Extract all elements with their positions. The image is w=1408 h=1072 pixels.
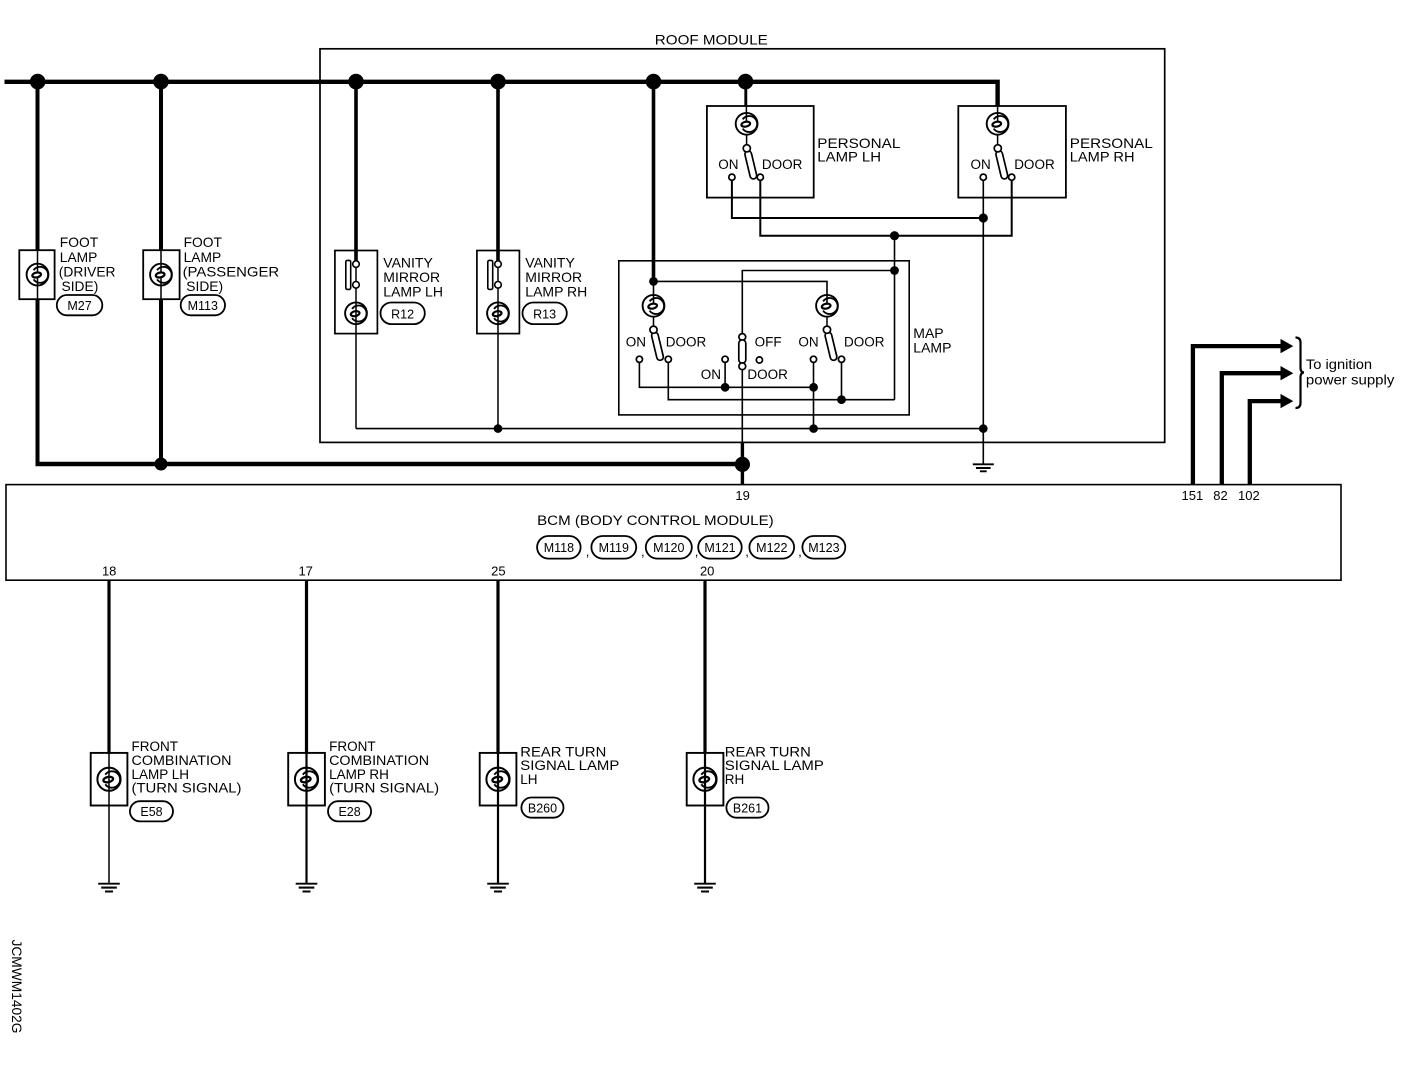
svg-text:DOOR: DOOR — [666, 334, 707, 349]
svg-text:REAR TURN: REAR TURN — [520, 744, 606, 759]
wire: vanity LH to ground line — [355, 288, 357, 429]
wire: foot lamp driver inside box — [37, 250, 39, 299]
map lamp left bulb — [643, 295, 665, 317]
wire: ground collector thick bottom — [36, 462, 743, 467]
wire arrow: pin 82 to ignition power supply — [1222, 366, 1294, 484]
wire: DOOR branch to map center switch — [742, 271, 894, 335]
svg-text:power supply: power supply — [1306, 373, 1395, 388]
wire: foot lamp passenger feed drop — [159, 80, 163, 251]
svg-text:REAR TURN: REAR TURN — [725, 744, 811, 759]
foot lamp passenger side bulb — [150, 264, 172, 286]
rear turn signal lamp RH label — [725, 744, 824, 787]
svg-text:,: , — [641, 544, 645, 559]
ground symbol roof module — [973, 464, 994, 471]
wire: personal RH bulb to switch — [997, 135, 999, 145]
wire: personal lamp LH feed drop — [744, 80, 747, 106]
svg-text:LH: LH — [520, 772, 537, 787]
svg-text:DOOR: DOOR — [844, 334, 885, 349]
svg-text:SIGNAL LAMP: SIGNAL LAMP — [725, 758, 824, 773]
rear turn signal lamp LH bulb — [486, 768, 509, 791]
svg-text:M120: M120 — [653, 541, 684, 555]
svg-text:FRONT: FRONT — [132, 739, 179, 754]
wire: DOOR net riser to map lamp — [894, 236, 896, 400]
wire: personal ON net to ground riser — [732, 180, 983, 218]
map lamp center OFF contact — [756, 357, 762, 363]
junction dot bus/foot lamp driver — [30, 74, 46, 90]
wire arrow: pin 102 to ignition power supply — [1250, 394, 1294, 485]
svg-text:M113: M113 — [188, 299, 218, 313]
wire: front combination LH to ground — [108, 753, 110, 884]
connector E28 — [328, 801, 371, 821]
junction dot map feed — [649, 277, 658, 286]
wire: personal LH box entry to bulb — [745, 106, 747, 122]
svg-text:LAMP: LAMP — [913, 339, 951, 355]
svg-text:SIDE): SIDE) — [62, 279, 99, 294]
map lamp center switch top contact — [739, 334, 746, 341]
connector M113 — [181, 295, 225, 315]
junction dot bus/foot lamp passenger — [153, 74, 169, 90]
connector M120 — [646, 536, 692, 559]
map lamp center ON contact — [722, 356, 728, 362]
wire: lamp ground collector line — [356, 428, 983, 430]
wire: map right bulb to pivot — [826, 317, 828, 326]
svg-text:(TURN SIGNAL): (TURN SIGNAL) — [329, 781, 439, 796]
svg-text:BCM (BODY CONTROL MODULE): BCM (BODY CONTROL MODULE) — [537, 513, 774, 528]
rear turn signal lamp RH bulb — [693, 768, 716, 791]
svg-text:25: 25 — [491, 564, 505, 579]
front combination lamp LH label — [132, 739, 242, 796]
connector M121 — [698, 536, 742, 559]
personal lamp RH bulb — [987, 113, 1009, 135]
svg-text:E58: E58 — [140, 805, 162, 819]
svg-text:B261: B261 — [733, 802, 762, 816]
wire: foot lamp passenger inside box — [160, 250, 162, 299]
personal lamp LH bulb — [736, 113, 758, 135]
connector B260 — [521, 798, 563, 818]
brace — [1296, 338, 1305, 409]
junction dot bus/map lamp — [646, 74, 662, 90]
connector M27 — [57, 295, 103, 315]
wire: battery supply bus — [5, 82, 998, 106]
front combination lamp RH bulb — [295, 768, 318, 791]
foot lamp passenger side label — [183, 235, 280, 294]
map lamp center switch lever — [739, 340, 746, 363]
vanity mirror lamp RH R13 box — [477, 251, 520, 334]
svg-text:To ignition: To ignition — [1306, 357, 1372, 372]
svg-text:M118: M118 — [544, 541, 574, 555]
wire: rear turn RH to ground — [704, 753, 706, 884]
junction dot DOOR riser/center switch branch — [890, 266, 899, 275]
vanity RH bulb — [487, 302, 509, 324]
vanity mirror lamp RH label — [525, 255, 587, 300]
To ignition power supply label — [1306, 357, 1395, 388]
svg-text:LAMP RH: LAMP RH — [1070, 149, 1135, 165]
svg-text:(DRIVER: (DRIVER — [59, 264, 116, 279]
wire: map right DOOR drop — [841, 362, 843, 399]
svg-text:SIGNAL LAMP: SIGNAL LAMP — [520, 758, 619, 773]
junction dot vanity RH/collector line — [494, 424, 503, 433]
wire: personal RH box entry to bulb — [997, 106, 999, 122]
connector R13 — [523, 303, 567, 325]
BCM box — [6, 485, 1341, 581]
svg-text:19: 19 — [735, 488, 749, 503]
wire: foot lamp driver to ground collector — [36, 299, 40, 466]
svg-text:DOOR: DOOR — [762, 157, 803, 172]
connector B261 — [726, 798, 768, 818]
wire: vanity RH to ground line — [497, 288, 499, 429]
svg-text:20: 20 — [700, 564, 714, 579]
svg-text:LAMP LH: LAMP LH — [383, 284, 443, 300]
roof module box — [320, 49, 1165, 443]
svg-text:ON: ON — [798, 334, 818, 349]
connector R12 — [381, 303, 425, 325]
ground symbol front combination RH — [296, 884, 318, 892]
personal lamp LH ON contact — [729, 174, 735, 180]
map lamp right ON contact — [810, 356, 816, 362]
junction dot DOOR net/map riser — [890, 231, 899, 240]
map lamp center switch bottom contact — [739, 363, 746, 370]
svg-text:(TURN SIGNAL): (TURN SIGNAL) — [132, 781, 242, 796]
svg-text:LAMP LH: LAMP LH — [817, 149, 881, 165]
svg-text:LAMP: LAMP — [184, 250, 222, 265]
svg-text:B260: B260 — [528, 802, 557, 816]
svg-text:FRONT: FRONT — [329, 739, 376, 754]
vanity mirror lamp LH label — [383, 255, 443, 300]
personal lamp LH switch lever — [744, 150, 757, 179]
wire: map center switch to node 19 — [741, 370, 743, 443]
map lamp right DOOR contact — [838, 356, 844, 362]
foot lamp passenger side M113 box — [143, 250, 179, 299]
personal lamp RH label — [1070, 135, 1153, 165]
rear turn signal lamp RH box — [687, 753, 724, 806]
svg-text:ON: ON — [626, 334, 646, 349]
svg-text:DOOR: DOOR — [747, 367, 788, 382]
wire: BCM pin 25 to rear turn signal lamp LH — [496, 580, 499, 754]
vanity LH bulb — [345, 302, 367, 324]
map lamp right switch lever — [824, 332, 837, 361]
svg-text:M119: M119 — [599, 541, 629, 555]
wire: personal LH bulb to switch — [746, 135, 748, 145]
wire: ground riser RH ON to ground — [982, 180, 984, 464]
wire: front combination RH to ground — [305, 753, 307, 884]
wire: BCM pin 20 to rear turn signal lamp RH — [703, 580, 706, 754]
map lamp right switch pivot — [823, 326, 830, 333]
svg-text:OFF: OFF — [755, 334, 782, 349]
svg-text:18: 18 — [102, 564, 116, 579]
svg-text:DOOR: DOOR — [1014, 157, 1055, 172]
map lamp label — [913, 325, 951, 355]
svg-text:,: , — [745, 544, 749, 559]
wire: map DOOR bus — [668, 362, 894, 399]
svg-text:M27: M27 — [67, 299, 91, 313]
ground symbol front combination LH — [98, 884, 120, 892]
svg-text:LAMP RH: LAMP RH — [525, 284, 587, 300]
connector M122 — [749, 536, 794, 559]
svg-text:E28: E28 — [338, 805, 360, 819]
wire: BCM pin 17 to front combination lamp RH — [305, 580, 308, 754]
svg-text:ROOF MODULE: ROOF MODULE — [655, 31, 768, 47]
personal lamp RH box — [958, 106, 1066, 198]
svg-text:R12: R12 — [391, 307, 414, 321]
personal lamp LH box — [707, 106, 814, 198]
wire: vanity mirror LH feed drop — [354, 80, 358, 262]
svg-text:LAMP RH: LAMP RH — [329, 767, 389, 782]
junction dot node 19 collector — [735, 457, 750, 472]
svg-text:(PASSENGER: (PASSENGER — [183, 264, 280, 279]
vanity LH internals — [346, 260, 360, 289]
wire: BCM pin 18 to front combination lamp LH — [107, 580, 110, 754]
wire: map ON bus — [639, 362, 813, 387]
svg-text:82: 82 — [1213, 488, 1227, 503]
front combination lamp LH bulb — [97, 768, 120, 791]
svg-text:JCMWM1402G: JCMWM1402G — [9, 940, 24, 1034]
map lamp left DOOR contact — [665, 356, 671, 362]
rear turn signal lamp LH box — [480, 753, 517, 806]
foot lamp driver side M27 box — [19, 250, 54, 299]
svg-text:M121: M121 — [704, 541, 735, 555]
junction dot ground riser/collector line — [979, 424, 988, 433]
personal lamp RH switch lever — [995, 150, 1008, 179]
svg-text:FOOT: FOOT — [184, 235, 223, 250]
map lamp right bulb — [816, 295, 838, 317]
vanity RH internals — [488, 260, 502, 289]
svg-text:ON: ON — [701, 367, 721, 382]
map lamp left ON contact — [636, 356, 642, 362]
ground symbol rear turn LH — [487, 884, 509, 892]
svg-text:M122: M122 — [756, 541, 787, 555]
map lamp box — [619, 261, 909, 415]
wire: map right ON drop to collector — [813, 362, 815, 428]
wire: map feed to right bulb — [654, 281, 828, 303]
personal lamp LH label — [817, 135, 900, 165]
wire: map lamp feed drop — [652, 80, 656, 281]
ground symbol rear turn RH — [694, 884, 716, 892]
front combination lamp RH box — [288, 753, 325, 806]
wire: vanity mirror RH feed drop — [496, 80, 500, 262]
connector M119 — [591, 536, 636, 559]
map lamp left switch lever — [651, 332, 664, 361]
svg-text:FOOT: FOOT — [60, 235, 99, 250]
wire: node 19 to BCM pin 19 — [741, 442, 744, 484]
svg-text:LAMP: LAMP — [60, 250, 98, 265]
svg-text:17: 17 — [298, 564, 312, 579]
wire: map left bulb to pivot — [653, 317, 655, 326]
front combination lamp LH box — [91, 753, 128, 806]
junction dot center ON/ON bus — [721, 383, 730, 392]
junction dot bus/vanity LH — [348, 74, 364, 90]
svg-text:,: , — [798, 544, 802, 559]
svg-text:ON: ON — [971, 157, 991, 172]
personal lamp RH switch pivot — [994, 145, 1001, 152]
wire: rear turn LH to ground — [497, 753, 499, 884]
junction dot bus/vanity RH — [490, 74, 506, 90]
connector E58 — [130, 801, 173, 821]
map lamp left switch pivot — [650, 326, 657, 333]
personal lamp RH DOOR contact — [1009, 174, 1015, 180]
personal lamp LH switch pivot — [743, 145, 750, 152]
front combination lamp RH label — [329, 739, 439, 796]
svg-text:,: , — [586, 544, 590, 559]
svg-text:M123: M123 — [808, 541, 839, 555]
svg-text:R13: R13 — [533, 307, 556, 321]
svg-text:COMBINATION: COMBINATION — [132, 753, 232, 768]
personal lamp LH DOOR contact — [757, 174, 763, 180]
wire: map center ON drop — [724, 362, 726, 387]
svg-text:RH: RH — [725, 772, 745, 787]
junction dot right ON/ON bus — [809, 383, 818, 392]
wire: map feed to left bulb — [653, 281, 655, 303]
svg-text:COMBINATION: COMBINATION — [329, 753, 429, 768]
junction dot right DOOR/DOOR bus — [837, 395, 846, 404]
svg-text:ON: ON — [718, 157, 738, 172]
wire: personal DOOR net — [760, 180, 1011, 235]
junction dot right ON/collector line — [809, 424, 818, 433]
svg-text:102: 102 — [1238, 488, 1260, 503]
wire arrow: pin 151 to ignition power supply — [1193, 339, 1293, 485]
foot lamp driver side label — [59, 235, 116, 294]
rear turn signal lamp LH label — [520, 744, 619, 787]
personal lamp RH ON contact — [980, 174, 986, 180]
junction dot bus/personal lamp LH — [738, 74, 754, 90]
wire: foot lamp passenger to ground collector — [159, 299, 163, 464]
foot lamp driver side bulb — [27, 264, 49, 286]
svg-text:151: 151 — [1182, 488, 1204, 503]
svg-text:LAMP LH: LAMP LH — [132, 767, 190, 782]
vanity mirror lamp LH R12 box — [335, 251, 378, 334]
junction dot ON net/ground riser — [979, 213, 988, 222]
connector M118 — [537, 536, 581, 559]
svg-text:SIDE): SIDE) — [186, 279, 223, 294]
connector M123 — [802, 536, 845, 559]
wire: foot lamp driver feed drop — [36, 80, 40, 251]
junction dot foot lamp passenger/ground collector — [155, 458, 168, 471]
